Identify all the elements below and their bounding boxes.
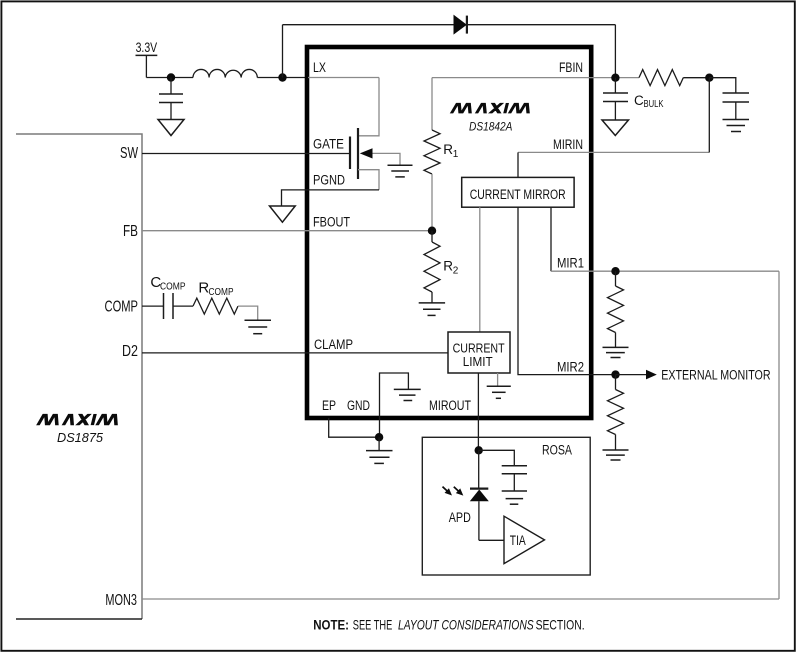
svg-text:COMP: COMP	[160, 281, 186, 293]
resistor R-filter	[639, 70, 683, 86]
resistor R1	[431, 78, 433, 130]
wire MIROUT	[477, 373, 479, 450]
wire FB to FBOUT	[142, 230, 432, 232]
wire RCOMP to ground	[238, 306, 258, 320]
svg-text:EP: EP	[322, 398, 336, 413]
svg-text:SECTION.: SECTION.	[536, 617, 585, 633]
node EP-GND junction	[375, 433, 383, 441]
svg-text:D2: D2	[122, 343, 138, 360]
wire MIRIN	[518, 151, 709, 153]
svg-text:PGND: PGND	[313, 173, 345, 188]
resistor RCOMP	[193, 298, 238, 314]
inductor L1	[193, 69, 257, 77]
box CURRENT LIMIT	[448, 332, 510, 373]
svg-text:BULK: BULK	[644, 99, 664, 110]
wire top rail	[283, 24, 616, 26]
ground (bars, R-MIR1)	[603, 347, 629, 357]
logo MAXIM (DS1875)	[37, 412, 120, 428]
ground (triangle, CBULK)	[602, 120, 629, 136]
svg-text:R: R	[443, 259, 453, 274]
capacitor CCOMP	[163, 293, 165, 319]
wire EP	[329, 418, 379, 437]
svg-text:CURRENT: CURRENT	[453, 341, 505, 355]
op-amp TIA	[504, 516, 545, 563]
wire LX internal	[308, 77, 379, 79]
node FBIN junction	[611, 74, 619, 82]
capacitor C-in	[170, 78, 172, 95]
box CURRENT MIRROR	[462, 177, 574, 207]
wire supply rail	[146, 77, 193, 79]
svg-text:FBOUT: FBOUT	[313, 214, 350, 229]
svg-text:MIR2: MIR2	[557, 360, 584, 375]
wire D2 to CLAMP	[142, 352, 448, 354]
diode APD	[478, 450, 480, 488]
ground (bars, C-ROSA)	[502, 491, 527, 504]
wire SW to GATE	[142, 153, 350, 155]
svg-text:LAYOUT CONSIDERATIONS: LAYOUT CONSIDERATIONS	[398, 617, 534, 633]
svg-text:NOTE:: NOTE:	[313, 617, 349, 633]
svg-text:CLAMP: CLAMP	[314, 337, 353, 352]
node filter junction	[705, 74, 713, 82]
svg-text:1: 1	[453, 149, 459, 160]
ground (bars, EP/GND)	[378, 437, 380, 450]
svg-text:SW: SW	[120, 145, 139, 162]
wire PGND	[282, 190, 380, 206]
svg-text:MIR1: MIR1	[557, 256, 584, 271]
wire filter out	[683, 77, 709, 79]
svg-text:FB: FB	[123, 223, 138, 240]
resistor R-MIR2	[615, 375, 617, 390]
svg-text:2: 2	[453, 265, 459, 276]
node LX junction	[278, 73, 286, 81]
wire current-limit internal ground	[497, 373, 499, 386]
svg-text:COMP: COMP	[105, 299, 139, 316]
svg-text:GATE: GATE	[313, 137, 344, 152]
transistor Q1 channel bar	[357, 128, 359, 179]
ground (bars, GND internal)	[394, 389, 421, 400]
resistor R2	[431, 231, 433, 242]
capacitor C-ROSA	[479, 450, 515, 465]
svg-text:MIROUT: MIROUT	[429, 398, 471, 413]
svg-text:COMP: COMP	[209, 286, 234, 298]
svg-text:GND: GND	[347, 398, 370, 413]
svg-text:APD: APD	[449, 510, 471, 525]
svg-text:EXTERNAL MONITOR: EXTERNAL MONITOR	[661, 368, 771, 383]
wire APD to TIA	[479, 539, 504, 541]
wire cap to resistor	[173, 305, 193, 307]
capacitor C-filter	[709, 78, 736, 93]
resistor R-MIR1	[615, 271, 617, 286]
wire MIR1 out	[551, 270, 779, 272]
node FBOUT junction	[428, 227, 436, 235]
ground (bars, body)	[388, 165, 413, 177]
svg-text:R: R	[443, 142, 453, 157]
wire top rail left riser	[282, 25, 284, 78]
logo MAXIM (DS1842A)	[450, 101, 532, 115]
wire mirror to current-limit	[479, 207, 481, 332]
wire external monitor arrow	[616, 374, 647, 376]
wire top rail right riser	[614, 25, 616, 78]
wire right loop down	[778, 271, 780, 599]
wire inductor to LX	[257, 77, 308, 79]
capacitor CBULK	[614, 78, 616, 93]
wire mirror to MIR2	[518, 207, 616, 374]
diode D1	[454, 16, 466, 34]
wire MIRIN drop	[708, 78, 710, 153]
wire mirror to MIR1	[550, 207, 552, 271]
IC U1 DS1842A box	[307, 47, 591, 418]
ground (bars, R2)	[419, 303, 445, 316]
transistor Q1 body arrow	[360, 148, 373, 158]
svg-text:DS1842A: DS1842A	[469, 122, 513, 134]
box ROSA	[422, 437, 590, 575]
wire drain riser	[358, 78, 379, 136]
svg-text:TIA: TIA	[510, 533, 526, 548]
wire 3.3V stem	[145, 55, 147, 77]
svg-text:MIRIN: MIRIN	[553, 137, 583, 152]
node MIR2 junction	[611, 370, 619, 378]
svg-text:ROSA: ROSA	[542, 443, 572, 458]
svg-text:LX: LX	[313, 60, 326, 75]
ground (bars, RCOMP)	[245, 320, 272, 333]
ground (bars, C-filter)	[723, 120, 750, 132]
ground (bars, current limit)	[487, 386, 511, 398]
wire GND pin internal	[380, 373, 409, 437]
node MIR1 junction	[611, 267, 619, 275]
transistor Q1 source lead	[358, 170, 379, 190]
svg-text:MON3: MON3	[105, 592, 137, 609]
IC U2 DS1875 box	[16, 134, 142, 619]
wire MON3	[142, 598, 779, 600]
ground (triangle, input cap)	[158, 120, 184, 136]
node supply-cap junction	[167, 73, 175, 81]
node MIROUT junction	[475, 446, 483, 454]
svg-text:CURRENT MIRROR: CURRENT MIRROR	[470, 187, 566, 202]
ground (triangle, PGND)	[270, 206, 296, 222]
svg-text:C: C	[634, 93, 644, 108]
svg-text:FBIN: FBIN	[559, 60, 583, 75]
ground (bars, R-MIR2)	[603, 450, 629, 460]
transistor Q1 gate bar	[349, 137, 351, 170]
svg-text:DS1875: DS1875	[57, 431, 103, 445]
svg-text:SEE THE: SEE THE	[353, 617, 393, 633]
wire COMP	[142, 305, 164, 307]
svg-text:LIMIT: LIMIT	[463, 355, 493, 369]
wire FBIN	[432, 77, 639, 79]
light arrows	[440, 484, 454, 498]
svg-text:3.3V: 3.3V	[136, 39, 158, 55]
